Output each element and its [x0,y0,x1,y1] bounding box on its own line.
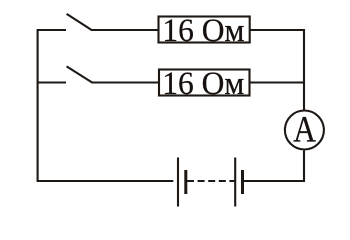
svg-text:16 Ом: 16 Ом [162,13,244,49]
svg-text:A: A [293,111,316,151]
svg-text:16 Ом: 16 Ом [162,66,244,102]
